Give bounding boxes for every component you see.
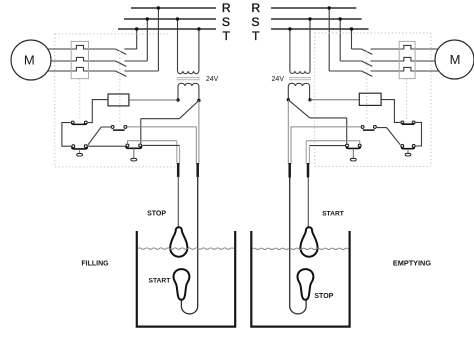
aux latch contact K2 (NO) terminal circles	[361, 125, 364, 128]
aux latch contact K2 bridge bar (open)	[363, 129, 375, 131]
coil K2 box	[359, 93, 381, 105]
motor M2 circle	[435, 40, 474, 79]
node: secondary terminal A dot	[176, 98, 179, 101]
node: junction dot S line x340.2	[339, 17, 342, 20]
wire: right contactor pole 3 from R drop	[329, 70, 361, 72]
node: junction dot R line x158.4	[157, 6, 160, 9]
wire: phase S busbar (right)	[271, 18, 362, 20]
contactor K1 pole 1 blade	[115, 49, 126, 54]
wire: NC contact to right rail down to START float contact	[416, 122, 422, 146]
node: junction dot T line x351.5	[350, 27, 353, 30]
wire: phase R busbar (left)	[131, 7, 216, 9]
float: START float (submerged, left tank)	[174, 269, 190, 300]
cable: STOP float cable merged thick segment	[177, 163, 180, 177]
wire: B4 right terminal stub and cable wire (gray)	[306, 141, 360, 144]
float switch contact B2 actuator stem	[133, 148, 135, 157]
svg-text:M: M	[450, 52, 461, 67]
dashed link: contactor K2 poles to coil	[366, 51, 368, 125]
float switch contact B4 (STOP, right) terminal circles	[346, 144, 349, 147]
float switch contact B4 actuator stem	[352, 149, 354, 158]
svg-text:START: START	[149, 278, 172, 285]
water line (right tank)	[252, 248, 348, 249]
float switch contact B3 actuator stem	[407, 149, 409, 153]
cable: START float cable down and U-turn into float bottom	[181, 177, 197, 314]
wire: aux contact right to START float cable	[128, 127, 197, 164]
wire: drop from S line to contactor pole 2	[146, 19, 148, 61]
transformer T2 core	[289, 78, 311, 80]
wire: B branch drop to STOP contact right terminal	[140, 119, 142, 144]
float switch contact B3 bridge	[402, 147, 415, 149]
wire: drop from S line to transformer T1 primary	[177, 19, 179, 71]
svg-text:START: START	[322, 210, 345, 217]
transformer T1 primary winding	[178, 71, 199, 74]
aux latch contact K1 bridge bar (open)	[113, 129, 125, 131]
wire: STOP cable wire a drop	[176, 141, 178, 164]
wire: STOP cable wire a (from left terminal stub)	[128, 141, 177, 144]
transformer T1 secondary winding	[178, 83, 199, 86]
wire: aux contact left to float cable (right)	[291, 127, 361, 164]
transformer T2 primary winding	[290, 71, 310, 73]
wire: phase T busbar (right)	[271, 28, 369, 30]
wire: drop from S line to right contactor pole 2	[339, 19, 341, 61]
node: junction dot S line x147.3	[146, 17, 149, 20]
wire: T2 secondary right leg	[309, 86, 311, 100]
wire: B branch drop to STOP contact left terminal (right)	[346, 118, 348, 144]
wire: coil K1 left to overload trip contact	[88, 100, 108, 123]
float switch contact B1 actuator head	[77, 153, 83, 156]
overload trip contact (NC) bridge bar	[72, 123, 86, 124]
float switch contact B1 bridge	[72, 147, 87, 149]
overload relay F2 body box	[399, 41, 415, 78]
wire: float cable from B straight down (right)	[287, 100, 289, 164]
wire: secondary left leg	[177, 86, 179, 100]
float switch contact B1 actuator stem	[79, 149, 81, 153]
wire: drop from T line to transformer T2 primary	[289, 29, 291, 71]
svg-text:24V: 24V	[272, 76, 285, 83]
svg-text:T: T	[222, 29, 230, 43]
svg-text:T: T	[252, 29, 260, 43]
overload trip contact (NC, right) bridge bar	[402, 123, 415, 124]
svg-text:R: R	[222, 1, 231, 15]
dashed enclosure: right panel top edge	[315, 32, 431, 34]
motor M1 circle	[11, 40, 51, 80]
overload relay F2 heater row 1	[399, 45, 454, 49]
node: junction dot S line x177.5 (transformer feed)	[176, 17, 179, 20]
contactor K2 pole 2 blade	[362, 61, 373, 66]
wire: B4 left cable wire drop	[308, 146, 310, 164]
dashed link: contactor K1 poles to coil	[119, 51, 121, 125]
wire: B1 right terminal to STOP contact left terminal	[88, 145, 126, 147]
node: junction dot R line x329.2	[328, 6, 331, 9]
node: secondary terminal B dot	[197, 99, 200, 102]
transformer T2 secondary winding	[288, 83, 309, 86]
dashed link: overload F1 to trip contact	[79, 79, 81, 120]
transformer T1 core	[177, 78, 201, 80]
wire: B4 right cable wire drop	[305, 141, 307, 164]
tank: left tank walls and bottom	[137, 231, 235, 327]
tank: right tank walls and bottom	[251, 231, 349, 327]
svg-text:S: S	[251, 15, 259, 29]
dashed enclosure: right panel right edge	[430, 33, 432, 167]
wire: B branch horizontal to STOP contact feed	[141, 118, 180, 120]
node: junction dot S line x310 (transformer feed)	[308, 17, 311, 20]
wire: drop from T line to transformer T1 primary	[198, 29, 200, 71]
wire: pole 3 fixed side to R drop	[124, 70, 158, 72]
wire: motor M1 leads (3 phases)	[31, 49, 71, 71]
wire: float cable (START) from B straight down	[198, 101, 200, 165]
cable: right STOP float cable down and U-turn into float bottom	[290, 177, 306, 314]
svg-text:M: M	[24, 53, 35, 68]
wire: drop from T line to contactor pole 1	[136, 29, 138, 49]
float switch contact B4 bridge	[346, 146, 360, 148]
dashed enclosure: left panel left edge	[54, 34, 56, 167]
overload trip contact (NC, right) terminal circles	[401, 121, 404, 124]
float switch contact B3 actuator head	[405, 153, 411, 156]
contactor K2 pole 3 blade	[362, 71, 373, 76]
wire: secondary right leg	[198, 86, 200, 101]
wire: pole 3 to overload F2	[371, 70, 400, 72]
float switch contact B3 (START, right) terminal circles	[401, 145, 404, 148]
wire: STOP cable wire b (from right terminal)	[142, 144, 179, 146]
wire: right contactor pole 2 from S drop	[340, 60, 361, 62]
float: STOP float (surface, left tank)	[170, 227, 187, 256]
wire: secondary A to coil K2	[310, 99, 359, 101]
dashed enclosure: right panel left edge	[314, 33, 316, 167]
float: START float (surface, right tank)	[300, 227, 317, 256]
overload relay F1 body box	[71, 41, 88, 78]
svg-text:FILLING: FILLING	[81, 260, 109, 267]
dashed enclosure: left panel bottom edge	[55, 166, 176, 168]
wire: pole 2 fixed side to S drop	[124, 60, 147, 62]
node: T2 secondary terminal A dot	[308, 98, 311, 101]
overload relay F2 heater row 2	[399, 57, 454, 61]
water line (left tank)	[138, 248, 234, 249]
cable: right START float cable thin segment to float top	[307, 177, 309, 228]
overload relay F1 heater row 1	[71, 45, 115, 49]
wire: pole 1 to overload F2	[371, 48, 400, 50]
wire: phase T busbar (left)	[118, 28, 216, 30]
wire: right contactor pole 1 from T drop	[352, 48, 362, 50]
cable: STOP float cable thin segment to float	[177, 177, 179, 229]
float switch contact B2 (STOP, tank full) terminal circles	[126, 144, 129, 147]
float: STOP float (submerged, right tank)	[298, 269, 314, 300]
node: junction dot T line x198.9 (transformer feed)	[197, 27, 200, 30]
wire: diagonal from B3 left terminal up to aux contact (right)	[377, 128, 400, 145]
wire: drop from T line to right contactor pole 1	[351, 29, 353, 49]
dashed enclosure: right panel bottom edge	[315, 165, 431, 167]
float switch contact B4 actuator head	[350, 158, 356, 161]
wire: phase R busbar (right)	[271, 7, 356, 9]
wire: phase S busbar (left)	[124, 18, 216, 20]
wire: B branch horizontal to STOP contact feed (right)	[310, 117, 347, 119]
svg-text:EMPTYING: EMPTYING	[393, 258, 431, 267]
wire: diagonal from B1 right terminal up to aux contact	[88, 127, 111, 145]
aux latch contact K1 (NO) terminal circles	[111, 125, 114, 128]
contactor K2 pole 1 blade	[362, 49, 373, 54]
dashed link: overload F2 to trip contact	[406, 79, 408, 120]
coil K1 box	[108, 94, 129, 106]
wire: drop from S line to transformer T2 primary	[309, 19, 311, 71]
wire: STOP cable wire b drop	[179, 145, 181, 164]
svg-text:STOP: STOP	[147, 210, 166, 217]
wire: drop from R line to right contactor pole 3	[328, 8, 330, 71]
wire: drop from R line to contactor pole 3	[157, 8, 159, 71]
dashed enclosure: left panel top edge	[55, 33, 169, 35]
wire: B4 left terminal cable wire (dark)	[309, 145, 345, 147]
wire: NC contact to left rail and down to START float contact	[62, 123, 71, 147]
node: T2 secondary terminal B dot	[287, 98, 290, 101]
cable: right STOP float cable merged thick segment	[288, 163, 291, 178]
overload relay F1 heater row 2	[71, 57, 115, 61]
overload relay F1 heater row 3	[71, 67, 115, 71]
overload relay F2 heater row 3	[399, 67, 454, 71]
cable: START float cable merged thick segment	[196, 163, 199, 177]
wire: T2 secondary left leg	[287, 86, 289, 100]
node: junction dot T line x136.7	[135, 27, 138, 30]
wire: pole 1 fixed side to T drop	[124, 48, 136, 50]
cable: right START float cable merged thick segment	[307, 163, 310, 178]
float switch contact B1 (START, tank empty) terminal circles	[72, 145, 75, 148]
contactor K1 pole 3 blade	[115, 71, 126, 76]
overload trip contact (NC) terminal circles	[71, 121, 74, 124]
node: junction dot T line x289.9 (transformer feed)	[288, 27, 291, 30]
wire: diagonal from B down-right	[288, 100, 310, 118]
wire: diagonal from B down-left	[179, 101, 199, 119]
svg-text:24V: 24V	[206, 76, 219, 83]
wire: coil K2 right to overload trip contact	[381, 100, 400, 123]
svg-text:S: S	[222, 15, 230, 29]
svg-text:R: R	[251, 1, 260, 15]
float switch contact B2 bridge	[126, 146, 142, 148]
contactor K1 pole 2 blade	[115, 61, 126, 66]
float switch contact B2 actuator head	[131, 158, 137, 161]
svg-text:STOP: STOP	[314, 293, 333, 300]
wire: pole 2 to overload F2	[371, 60, 400, 62]
wire: secondary A to coil K1	[129, 99, 178, 101]
